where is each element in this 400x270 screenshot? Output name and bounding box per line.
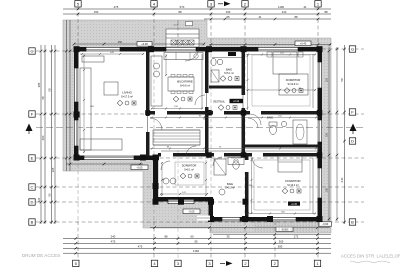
svg-text:172: 172	[294, 235, 299, 239]
svg-text:ACCES DIN STR. LALELELOR: ACCES DIN STR. LALELELOR	[341, 254, 400, 259]
svg-text:365: 365	[279, 239, 284, 243]
svg-text:475: 475	[138, 244, 143, 248]
svg-text:150: 150	[94, 10, 99, 14]
svg-text:60: 60	[190, 235, 194, 239]
svg-text:S=12.8 m²: S=12.8 m²	[287, 83, 298, 86]
svg-text:S=8.1 m²: S=8.1 m²	[184, 168, 194, 171]
svg-text:C: C	[31, 185, 34, 190]
svg-text:300: 300	[41, 135, 45, 140]
svg-text:475: 475	[114, 5, 119, 9]
svg-text:88: 88	[178, 10, 182, 14]
svg-text:610: 610	[340, 177, 344, 182]
svg-text:-0.90: -0.90	[322, 222, 328, 226]
svg-text:DORMITOR: DORMITOR	[285, 179, 300, 183]
svg-text:S=17.5 m²: S=17.5 m²	[121, 95, 133, 99]
svg-text:240: 240	[111, 235, 116, 239]
svg-text:200: 200	[326, 132, 329, 137]
svg-text:35: 35	[226, 235, 230, 239]
svg-text:165: 165	[51, 167, 55, 172]
svg-text:+0.90: +0.90	[141, 42, 148, 46]
svg-text:320: 320	[326, 77, 329, 82]
svg-text:VESTIBUL: VESTIBUL	[213, 101, 226, 104]
svg-text:-0.05: -0.05	[189, 210, 195, 214]
svg-text:250: 250	[118, 41, 123, 44]
svg-text:E: E	[31, 156, 34, 161]
svg-text:65: 65	[226, 15, 230, 19]
svg-text:41: 41	[303, 5, 307, 9]
svg-text:S=5.1 m²: S=5.1 m²	[224, 72, 234, 75]
svg-text:+0.45: +0.45	[300, 42, 307, 46]
svg-text:58: 58	[47, 88, 51, 92]
svg-text:S=9.8 m²: S=9.8 m²	[180, 84, 190, 87]
svg-text:380: 380	[278, 244, 283, 248]
svg-text:88: 88	[324, 10, 328, 14]
svg-text:D: D	[31, 200, 34, 205]
svg-text:150: 150	[226, 10, 231, 14]
svg-text:88: 88	[294, 15, 298, 19]
svg-text:-0.05: -0.05	[137, 166, 143, 170]
svg-text:385: 385	[37, 82, 41, 87]
svg-text:B: B	[31, 220, 34, 225]
svg-text:BAIE: BAIE	[226, 68, 232, 72]
svg-text:BAIE: BAIE	[227, 182, 233, 186]
svg-text:S=5.3 m²: S=5.3 m²	[225, 187, 235, 190]
svg-text:570: 570	[180, 5, 185, 9]
svg-text:1190: 1190	[278, 5, 284, 9]
svg-text:120: 120	[37, 197, 41, 202]
svg-text:G: G	[351, 47, 354, 52]
svg-text:410: 410	[282, 10, 287, 14]
svg-text:DRUM DE ACCES: DRUM DE ACCES	[22, 253, 60, 258]
svg-text:41: 41	[258, 15, 262, 19]
svg-text:+0.42: +0.42	[233, 100, 240, 103]
svg-text:300: 300	[326, 187, 329, 192]
svg-text:1160: 1160	[193, 249, 199, 253]
svg-text:95: 95	[194, 239, 198, 243]
svg-text:LIVING: LIVING	[122, 91, 133, 95]
svg-text:-0.90: -0.90	[282, 228, 288, 232]
svg-text:BAIE: BAIE	[267, 116, 273, 120]
svg-text:58: 58	[340, 78, 344, 82]
svg-text:+0.30: +0.30	[173, 25, 179, 27]
svg-text:S=13.4 m²: S=13.4 m²	[287, 184, 299, 187]
svg-text:B: B	[351, 220, 354, 225]
svg-text:DORMITOR: DORMITOR	[286, 78, 301, 82]
svg-text:+0.45: +0.45	[291, 204, 298, 206]
svg-text:475: 475	[111, 239, 116, 243]
svg-text:88: 88	[164, 235, 168, 239]
svg-text:DORMITOR: DORMITOR	[182, 164, 197, 168]
svg-text:G: G	[30, 49, 33, 54]
svg-text:D: D	[351, 139, 354, 144]
svg-text:BUCATARIE: BUCATARIE	[177, 80, 193, 84]
